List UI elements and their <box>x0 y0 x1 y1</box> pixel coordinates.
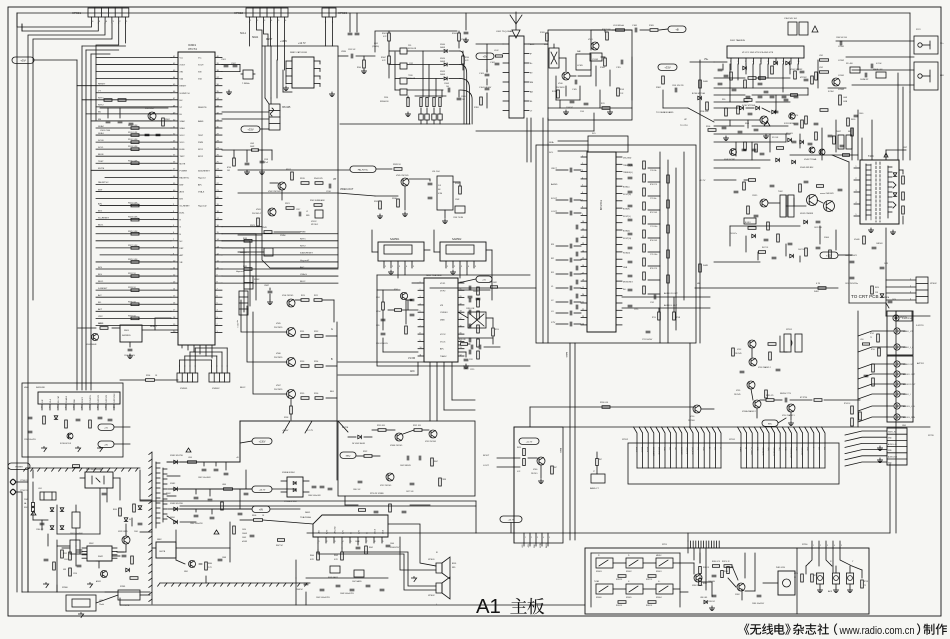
capacitor C770 MV <box>784 398 786 402</box>
op-amp IC901 MCU 37C74 body <box>178 52 215 345</box>
wire flyback right <box>899 169 903 171</box>
wire mute diag <box>338 421 348 432</box>
svg-text:AFC: AFC <box>440 348 445 351</box>
svg-text:10: 10 <box>420 347 422 349</box>
cluster av panel passives <box>851 364 875 426</box>
wire VIF out <box>338 55 348 57</box>
svg-text:SC-RESET: SC-RESET <box>98 217 110 219</box>
resistor R602 <box>365 546 368 554</box>
svg-text:N902: N902 <box>89 543 94 545</box>
svg-text:R417 1K: R417 1K <box>762 247 769 249</box>
resistor divider right of flyback <box>902 176 905 214</box>
svg-text:SW903: SW903 <box>596 571 602 573</box>
IC901 pin numbers <box>173 56 220 333</box>
svg-text:RT03 1K: RT03 1K <box>844 403 851 405</box>
svg-text:V9060: V9060 <box>440 44 445 46</box>
svg-text:XP601: XP601 <box>428 559 435 561</box>
power rail +16.7V bottom <box>500 516 522 522</box>
wire flyback feeds <box>832 120 872 162</box>
svg-text:RON(O): RON(O) <box>623 252 630 254</box>
svg-text:KEY2: KEY2 <box>98 105 104 107</box>
capacitor C909 big filter <box>70 540 80 554</box>
svg-text:R900: R900 <box>357 67 361 69</box>
wire 16v rail <box>180 488 223 490</box>
filter Z101 <box>549 48 559 68</box>
svg-text:CONTROL: CONTROL <box>90 395 92 403</box>
svg-text:R953: R953 <box>300 361 304 363</box>
wire av cluster verticals <box>751 348 753 358</box>
diode VD905 snub <box>124 518 128 522</box>
wire secondary bottoms <box>175 530 177 560</box>
N301 pins <box>581 156 622 326</box>
svg-text:R860: R860 <box>208 563 212 565</box>
svg-text:R927 3.3K: R927 3.3K <box>128 245 138 247</box>
cluster top of line output <box>788 109 844 155</box>
svg-text:SN49 BA655: SN49 BA655 <box>328 576 338 579</box>
capacitor C868 <box>218 558 222 560</box>
svg-text:C407 202: C407 202 <box>798 249 805 251</box>
diode VD424 <box>880 294 884 298</box>
svg-text:CX105: CX105 <box>592 59 599 61</box>
svg-text:VIDEO(L/T): VIDEO(L/T) <box>761 447 763 456</box>
svg-text:R9012: R9012 <box>382 33 387 35</box>
svg-text:C868: C868 <box>222 557 226 559</box>
svg-text:880/16V C770: 880/16V C770 <box>780 393 791 395</box>
switch SW905 V- <box>626 584 643 594</box>
wire pal line <box>238 169 350 171</box>
inductor L905 500R <box>491 286 498 288</box>
wire 130v link <box>240 441 252 443</box>
ground IC902 <box>331 92 333 94</box>
svg-text:R988: R988 <box>243 238 247 240</box>
svg-text:L904: L904 <box>188 457 192 459</box>
svg-text:C620: C620 <box>242 529 246 531</box>
svg-text:R70B: R70B <box>676 317 680 319</box>
capacitor C917 <box>298 212 300 216</box>
svg-text:C1815: C1815 <box>752 195 757 197</box>
svg-text:2: 2 <box>327 541 328 543</box>
resistor R603 6.2R <box>341 552 344 560</box>
ground n101 area <box>765 134 767 136</box>
inductor L700 <box>863 343 870 345</box>
resistor R982 <box>648 575 656 578</box>
wire mains <box>16 13 18 592</box>
svg-text:PAL/NTSC: PAL/NTSC <box>180 176 190 179</box>
capacitor C725 100/50V <box>646 330 650 332</box>
wire smps primary wiring <box>75 534 77 546</box>
svg-text:XP950: XP950 <box>802 544 807 546</box>
svg-text:C442 986/56V: C442 986/56V <box>400 465 412 467</box>
svg-text:T444: T444 <box>868 155 874 158</box>
resistor R915 <box>69 568 72 576</box>
resistor R921b <box>414 429 422 432</box>
capacitor C102 <box>495 62 499 64</box>
capacitor C301 <box>674 88 676 92</box>
capacitor C318 <box>752 148 756 150</box>
svg-text:DIG-GND: DIG-GND <box>623 158 632 160</box>
svg-text:47uF: 47uF <box>264 162 268 164</box>
svg-text:4: 4 <box>582 177 583 179</box>
resistor R986 <box>699 579 702 586</box>
svg-text:L9?5 500R: L9?5 500R <box>489 282 498 284</box>
svg-text:V955: V955 <box>736 390 740 392</box>
svg-text:TVAGC: TVAGC <box>440 355 447 358</box>
wire tuner left feeds <box>476 43 503 45</box>
svg-text:RT01: RT01 <box>870 333 874 335</box>
warning tri sec <box>186 448 191 452</box>
svg-text:4: 4 <box>856 202 857 204</box>
wire S-SWITCH <box>885 303 887 316</box>
AV jack S-SWITCH <box>893 315 899 321</box>
svg-text:9: 9 <box>790 61 791 63</box>
svg-text:AFC: AFC <box>410 370 415 373</box>
svg-text:8: 8 <box>582 207 583 209</box>
capacitor C218 22 <box>464 358 468 360</box>
svg-text:R214: R214 <box>495 329 499 331</box>
svg-text:RT05 2.7K: RT05 2.7K <box>650 268 657 270</box>
svg-text:C607 BA655: C607 BA655 <box>352 580 362 583</box>
svg-text:6: 6 <box>420 318 421 320</box>
svg-text:SDA1: SDA1 <box>98 132 104 135</box>
svg-text:L866: L866 <box>222 484 226 486</box>
capacitor C907 <box>128 348 132 350</box>
svg-text:R624: R624 <box>517 447 521 449</box>
svg-text:N9R2 CAT24C08: N9R2 CAT24C08 <box>290 51 308 54</box>
svg-text:BGD-GND: BGD-GND <box>657 447 659 455</box>
wire speaker feeds <box>388 524 436 566</box>
svg-text:R956: R956 <box>314 393 318 395</box>
wire N101 rows <box>714 61 727 63</box>
resistor R6 emitter <box>551 466 554 474</box>
transistor V100 2SC9018 <box>562 72 570 80</box>
transistor V913 KIA431 <box>101 571 108 578</box>
capacitor bass ct box <box>591 474 605 483</box>
svg-text:XIN: XIN <box>198 72 202 74</box>
wire cap 100uF drop <box>465 13 467 30</box>
svg-text:R989: R989 <box>243 266 247 268</box>
capacitor C918 opto <box>102 492 106 494</box>
capacitor C366 50V104 <box>839 41 841 45</box>
transistor SC364 BZ366 <box>832 78 840 86</box>
svg-text:BLK2: BLK2 <box>240 387 246 389</box>
hatch primary ground bar <box>26 467 140 469</box>
svg-text:NSL: NSL <box>713 447 715 450</box>
svg-text:R994: R994 <box>146 375 150 377</box>
wire r994 <box>120 379 145 381</box>
wire rails to amp <box>272 488 296 490</box>
transistor V956 2SA562 <box>753 400 761 408</box>
svg-text:GT302: GT302 <box>838 60 845 62</box>
svg-text:VD863 SRL/2DB: VD863 SRL/2DB <box>170 503 184 505</box>
svg-text:SW906: SW906 <box>596 597 602 599</box>
svg-text:PAL/NTSC: PAL/NTSC <box>358 168 369 171</box>
svg-text:REST: REST <box>266 38 273 41</box>
svg-text:R306: R306 <box>706 126 710 128</box>
svg-text:33uF/50V: 33uF/50V <box>473 291 480 293</box>
label PAL/NTSC oval <box>350 166 376 172</box>
switch SW902 P- <box>626 558 643 568</box>
wire chroma down <box>404 186 406 210</box>
svg-text:N862: N862 <box>157 539 162 541</box>
svg-text:R6?: R6? <box>554 467 557 469</box>
ground speaker <box>411 578 416 582</box>
svg-text:+12.7V: +12.7V <box>306 430 314 432</box>
svg-text:KEY2: KEY2 <box>198 156 204 158</box>
svg-text:3: 3 <box>910 291 911 293</box>
wire degauss net <box>96 595 118 603</box>
svg-text:D4: D4 <box>129 519 131 521</box>
wire rec <box>778 418 786 423</box>
svg-text:72910: 72910 <box>408 75 413 77</box>
resistor R126 <box>546 33 549 41</box>
svg-text:KEY1: KEY1 <box>198 149 204 151</box>
wire r606 <box>240 519 253 521</box>
svg-text:+(V)/GND: +(V)/GND <box>685 447 687 455</box>
capacitor bottom row amp <box>304 583 384 591</box>
svg-text:VIDEO OUT: VIDEO OUT <box>903 364 914 366</box>
resistor R436 <box>439 478 442 486</box>
svg-text:RT57: RT57 <box>814 575 818 577</box>
wire v950 drop <box>529 407 531 427</box>
capacitor C86L <box>358 480 362 482</box>
svg-text:5.8/: 5.8/ <box>438 185 441 187</box>
svg-text:C609 1000uF/25V: C609 1000uF/25V <box>316 597 331 599</box>
svg-text:2: 2 <box>738 61 739 63</box>
svg-text:C106: C106 <box>580 111 584 113</box>
wire left drop 514 <box>513 427 515 533</box>
svg-text:Vss: Vss <box>180 58 183 60</box>
resistor R9801 220R <box>727 567 730 574</box>
svg-text:AGC: AGC <box>530 43 535 46</box>
wire audio bus y533 <box>476 532 890 534</box>
svg-text:GT402: GT402 <box>838 89 845 91</box>
resistor R952 <box>315 335 323 338</box>
capacitor C980 680 <box>712 574 716 576</box>
zener matrix box outline <box>375 31 457 52</box>
wire av vertical feed <box>857 311 859 427</box>
svg-text:C920 100u/25V: C920 100u/25V <box>24 439 37 441</box>
wire right column pair <box>889 464 891 533</box>
svg-text:LOUT: LOUT <box>483 465 489 467</box>
svg-text:R606: R606 <box>252 515 256 517</box>
svg-text:R958: R958 <box>284 417 288 419</box>
svg-text:5: 5 <box>582 185 583 187</box>
svg-text:VD440: VD440 <box>854 239 860 241</box>
diode VD407 pair <box>776 158 780 162</box>
svg-text:REC: REC <box>768 423 773 425</box>
svg-text:BGD-B: BGD-B <box>646 447 648 452</box>
capacitor C424 20V047 <box>888 300 892 302</box>
resistor R989 <box>721 571 724 578</box>
svg-text:SCL1: SCL1 <box>180 142 186 144</box>
svg-text:RT9L29 3298B: RT9L29 3298B <box>370 493 384 495</box>
capacitor C108 <box>634 28 636 32</box>
svg-text:FBT: FBT <box>903 147 908 149</box>
wire audio right rows <box>648 168 660 294</box>
N101 pins bottom <box>730 58 799 64</box>
svg-text:C605: C605 <box>355 541 359 543</box>
resistor R9007 4.7K <box>388 56 391 64</box>
small box audio top <box>588 136 628 152</box>
capacitor C115 <box>620 60 622 64</box>
wire switch matrix <box>590 553 592 607</box>
svg-text:BC306 MT21JA: BC306 MT21JA <box>692 92 705 95</box>
transistor V904 2SC945b <box>287 299 295 307</box>
svg-text:C917: C917 <box>296 209 300 211</box>
svg-text:4: 4 <box>420 303 421 305</box>
svg-text:8: 8 <box>783 61 784 63</box>
degauss coil L990 <box>66 595 96 611</box>
IC901 left pin labels <box>180 58 191 264</box>
switch SW903 P^ <box>596 558 613 568</box>
svg-text:C606: C606 <box>390 543 394 545</box>
svg-text:R921 3.3K: R921 3.3K <box>128 203 138 205</box>
diode VD906 <box>138 506 142 510</box>
resistor R785 470 <box>766 399 774 402</box>
svg-text:RT08 2.7K: RT08 2.7K <box>650 184 657 186</box>
svg-text:C-B: C-B <box>817 447 819 450</box>
power rail +5V tuner <box>476 53 494 59</box>
svg-text:21: 21 <box>582 302 584 304</box>
svg-text:9: 9 <box>383 541 384 543</box>
wire bottom return <box>120 604 585 606</box>
svg-text:XP860: XP860 <box>62 587 68 589</box>
wire 476 drop <box>475 501 477 533</box>
svg-text:7R38: 7R38 <box>442 479 446 481</box>
svg-text:S-RESET: S-RESET <box>98 288 108 290</box>
resistor R919 <box>301 182 309 185</box>
transistor V905 2SC945 <box>401 178 409 186</box>
resistor R958 vertical <box>290 406 293 414</box>
svg-text:C206 0.22uF/50V: C206 0.22uF/50V <box>376 343 388 345</box>
transistor V907 2SC2655 <box>287 390 296 399</box>
svg-text:AV/S: AV/S <box>180 190 185 193</box>
svg-text:C860 1000u/16V: C860 1000u/16V <box>308 495 322 497</box>
svg-text:b20UF: b20UF <box>242 541 247 543</box>
diode VD9090 <box>444 63 447 66</box>
svg-text:C713 100n: C713 100n <box>650 226 658 228</box>
transistor V861 <box>189 561 196 568</box>
resistor R447c <box>431 458 434 466</box>
svg-text:AUDIO L OUT: AUDIO L OUT <box>903 373 916 376</box>
svg-text:AUDIOL_L IN: AUDIOL_L IN <box>903 405 915 408</box>
capacitor C984 102 <box>712 594 716 596</box>
svg-text:XP720: XP720 <box>928 435 934 437</box>
inductor L980 LED <box>704 600 707 603</box>
svg-text:BN: BN <box>98 119 101 121</box>
ground smps grp <box>87 584 92 588</box>
power rail +33V <box>241 126 260 132</box>
svg-text:XP602: XP602 <box>428 595 435 597</box>
cluster av switch passives <box>732 343 780 398</box>
resistor R106 <box>604 58 607 66</box>
comb connector box <box>628 443 839 484</box>
inductor L901 line filter <box>40 492 56 500</box>
svg-text:9: 9 <box>105 407 106 409</box>
svg-text:2: 2 <box>420 289 421 291</box>
svg-text:7: 7 <box>367 541 368 543</box>
AV jacks column <box>894 328 916 420</box>
svg-text:R911 3.3K: R911 3.3K <box>128 132 138 134</box>
zener box row extra <box>400 89 407 95</box>
wire bus y421 <box>240 420 337 422</box>
wire n902 surround <box>62 546 120 568</box>
svg-text:1: 1 <box>812 447 814 448</box>
resistor R906 r <box>119 508 122 516</box>
ground crystal <box>228 90 230 92</box>
svg-text:R982 1K: R982 1K <box>646 579 653 581</box>
svg-text:2SC9L5: 2SC9L5 <box>531 473 538 475</box>
svg-text:11: 11 <box>420 355 422 357</box>
svg-text:13: 13 <box>460 347 462 349</box>
svg-text:BM: BM <box>530 82 533 84</box>
capacitor C916 <box>328 184 330 188</box>
capacitor C105 <box>574 80 576 84</box>
svg-text:XP402: XP402 <box>930 283 937 285</box>
capacitor C869 grp <box>224 472 228 474</box>
svg-text:75: 75 <box>870 337 872 339</box>
svg-text:(70LV80): (70LV80) <box>372 46 379 48</box>
svg-text:120R: 120R <box>455 199 460 201</box>
svg-text:ZD94: ZD94 <box>384 97 388 99</box>
svg-text:500R: 500R <box>250 146 255 148</box>
svg-text:+130V: +130V <box>282 430 289 432</box>
resistor R624 4.7K <box>523 449 526 456</box>
resistor R955 <box>301 397 309 400</box>
svg-text:18: 18 <box>582 280 584 282</box>
capacitor C916b <box>77 564 81 566</box>
footer credit line <box>744 623 947 636</box>
IF section outline box <box>377 274 530 276</box>
svg-text:KEY1: KEY1 <box>300 239 306 241</box>
transistor V901 KSC945 <box>148 112 156 120</box>
diode SN49 BA655 pair <box>330 566 340 573</box>
diode VD206 group <box>740 106 744 110</box>
svg-text:V(VIDEO)-OUT: V(VIDEO)-OUT <box>789 447 791 458</box>
switch mosfet V902b <box>122 536 130 544</box>
warning triangle <box>812 26 818 32</box>
resistor audio col2 <box>667 175 670 283</box>
wire amp bottom bus <box>306 577 388 579</box>
svg-text:G: G <box>331 328 333 331</box>
capacitor C2003 100 <box>447 88 449 92</box>
svg-text:C719: C719 <box>634 309 638 311</box>
wire fb ground <box>870 228 872 230</box>
svg-text:BGD-G: BGD-G <box>641 447 643 453</box>
crystal X901 7.3MHz <box>243 70 253 79</box>
wire matrix curved fan <box>460 51 472 124</box>
capacitor C219b <box>470 345 472 349</box>
svg-text:MUTE: MUTE <box>98 168 105 170</box>
svg-text:GT401: GT401 <box>838 75 845 77</box>
svg-text:C980L 100uF/10V: C980L 100uF/10V <box>752 603 764 605</box>
svg-text:SDA: SDA <box>549 141 554 144</box>
inductor L406 frame <box>876 72 886 78</box>
wire bus stubs mid <box>349 13 351 32</box>
svg-text:AGND: AGND <box>551 183 558 186</box>
svg-text:VGA-S: VGA-S <box>300 273 307 276</box>
wire HV out <box>885 150 887 160</box>
svg-text:P^: P^ <box>598 554 600 557</box>
tuner U101 TDQ-3844 body <box>509 36 524 118</box>
svg-text:B/G: B/G <box>98 210 102 212</box>
cluster caps row <box>746 96 798 98</box>
svg-text:L980 LED: L980 LED <box>700 597 708 599</box>
op-amp N301 audio TDA7439 body <box>587 152 616 332</box>
resistor R921 <box>286 207 294 210</box>
resistor R2049 4.7K <box>458 33 461 41</box>
wire n904 outputs <box>114 426 130 428</box>
